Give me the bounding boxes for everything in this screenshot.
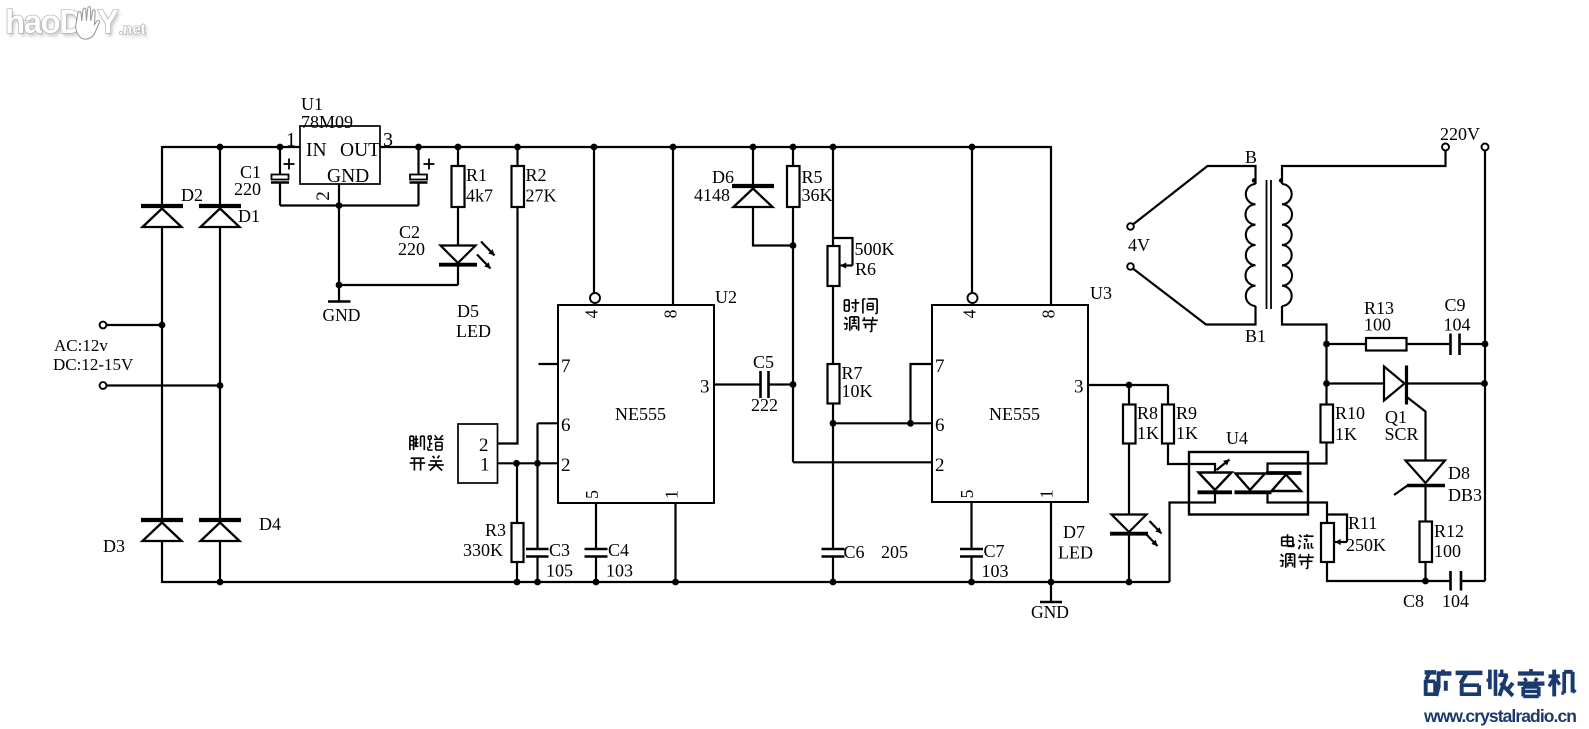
svg-text:220V: 220V [1440, 124, 1480, 144]
svg-text:U3: U3 [1090, 283, 1112, 303]
wire R12 bottom [1424, 562, 1426, 581]
label C4 value 103 [606, 561, 633, 581]
label AC:12v [54, 336, 108, 355]
label SCR [1385, 424, 1419, 444]
IC U3 NE555 box [932, 305, 1088, 502]
svg-text:330K: 330K [463, 540, 503, 560]
svg-text:R8: R8 [1137, 403, 1158, 423]
terminal 220V left [1442, 144, 1449, 151]
label U3 pin 4 [960, 309, 980, 318]
svg-text:R1: R1 [466, 165, 487, 185]
svg-text:C7: C7 [984, 541, 1005, 561]
node bottom rail / D7 [1126, 579, 1133, 586]
label R2 [526, 165, 547, 185]
svg-text:105: 105 [546, 561, 573, 581]
label U3 pin 7 [935, 356, 945, 377]
terminal 4V lower [1127, 263, 1134, 270]
wire C1 bottom [279, 184, 281, 206]
label B1 [1245, 326, 1266, 346]
wire U3 pin6 [833, 422, 932, 424]
capacitor C6 [822, 549, 845, 557]
svg-text:8: 8 [661, 309, 681, 318]
svg-text:220: 220 [234, 179, 261, 199]
label U2 pin 4 [582, 309, 602, 318]
svg-text:1K: 1K [1335, 424, 1357, 444]
label D7 LED [1058, 543, 1093, 563]
LED D7 arrows [1146, 521, 1162, 546]
label C3 value 105 [546, 561, 573, 581]
label U3 pin 2 [935, 455, 945, 476]
label C3 [549, 540, 570, 560]
svg-text:DB3: DB3 [1448, 485, 1482, 505]
capacitor C2 [410, 175, 428, 183]
wire top supply rail left segment [162, 146, 300, 148]
label R6 value 500K [855, 239, 895, 259]
node AC1 / D2 column [159, 322, 166, 329]
capacitor C7 [960, 549, 983, 557]
label 4V [1128, 235, 1150, 255]
capacitor C4 [585, 549, 608, 557]
label R10 value 1K [1335, 424, 1357, 444]
wire R13 left [1327, 343, 1367, 345]
label C9 value 104 [1444, 315, 1471, 335]
label U1 pin 3 [383, 129, 393, 151]
node bottom rail / C3 [534, 579, 541, 586]
svg-text:D8: D8 [1448, 463, 1470, 483]
svg-text:2: 2 [313, 191, 334, 201]
label U3 pin 5 [957, 489, 977, 498]
svg-text:R7: R7 [842, 363, 863, 383]
wire C6 bottom [832, 557, 834, 583]
wire U3 pin1 stem [1050, 502, 1052, 602]
svg-text:.net: .net [119, 21, 146, 38]
wire D8 to R12 [1424, 487, 1426, 522]
node bottom rail / U3 pin1 [1048, 579, 1055, 586]
node bottom rail / C6 [830, 579, 837, 586]
svg-text:7: 7 [935, 356, 945, 377]
regulator U1 78M09 box [300, 126, 380, 184]
wire U2 pin4 [593, 147, 595, 293]
wire R9 to U4 [1168, 444, 1189, 465]
capacitor C9 [1451, 334, 1460, 356]
label C2 value 220 [398, 239, 425, 259]
svg-text:C4: C4 [608, 540, 629, 560]
svg-text:4k7: 4k7 [466, 186, 493, 206]
node pin3 / R8 [1126, 382, 1133, 389]
label C4 [608, 540, 629, 560]
label D6 value 4148 [694, 185, 730, 205]
resistor R1 [452, 166, 465, 207]
IC U2 NE555 box [558, 305, 714, 503]
wire R1 top [457, 147, 459, 166]
wire SCR cathode [1407, 382, 1485, 384]
label U1 pin 2 [313, 191, 334, 201]
svg-text:D5: D5 [457, 301, 479, 321]
wire C4 bottom [595, 557, 597, 583]
wire left bridge column lower [161, 541, 163, 583]
resistor R10 [1321, 405, 1334, 443]
switch box foot switch [458, 424, 498, 483]
wire U4 to R11 [1308, 503, 1327, 524]
svg-text:D7: D7 [1063, 522, 1085, 542]
label U3 pin 3 [1074, 377, 1084, 398]
transformer phase dot right [1279, 178, 1283, 182]
label U1 [301, 94, 323, 114]
resistor R3 [512, 523, 524, 562]
label R7 [842, 363, 863, 383]
wire to U3 pin2 [793, 461, 932, 463]
label R3 value 330K [463, 540, 503, 560]
svg-text:C5: C5 [753, 352, 774, 372]
wire left bridge column middle [161, 227, 163, 520]
wire U2 pin3 out [714, 383, 760, 385]
label C5 [753, 352, 774, 372]
svg-text:B: B [1245, 147, 1257, 167]
svg-text:220: 220 [398, 239, 425, 259]
label R7 value 10K [842, 381, 873, 401]
svg-text:DC:12-15V: DC:12-15V [53, 355, 134, 374]
label R13 value 100 [1364, 315, 1391, 335]
svg-text:R6: R6 [855, 259, 876, 279]
label C8 value 104 [1442, 591, 1469, 611]
U4 triac top pin wire [1268, 464, 1309, 472]
wire bottom ground rail [162, 581, 1170, 583]
label D5 [457, 301, 479, 321]
U4 LED out wire [1189, 494, 1215, 503]
wire R8 to D7 [1128, 444, 1130, 516]
diode D6 [732, 186, 774, 207]
label D7 [1063, 522, 1085, 542]
svg-text:OUT: OUT [340, 140, 380, 161]
svg-text:D4: D4 [259, 514, 281, 534]
svg-text:205: 205 [881, 542, 908, 562]
svg-text:GND: GND [323, 305, 361, 325]
label R2 value 27K [526, 186, 557, 206]
label R9 value 1K [1176, 423, 1198, 443]
diode D3 [141, 520, 183, 541]
svg-text:100: 100 [1434, 541, 1461, 561]
potentiometer R6 wiper [833, 238, 853, 269]
LED D7 [1110, 515, 1148, 534]
label R1 value 4k7 [466, 186, 493, 206]
svg-text:C8: C8 [1403, 591, 1424, 611]
node top rail / D1 column [217, 144, 224, 151]
svg-text:LED: LED [1058, 543, 1093, 563]
svg-text:B1: B1 [1245, 326, 1266, 346]
svg-text:2: 2 [935, 455, 945, 476]
U4 triac left triangle [1235, 474, 1272, 493]
svg-text:C9: C9 [1445, 295, 1466, 315]
node top rail / U3 pin4 [969, 144, 976, 151]
label R3 [485, 520, 506, 540]
wire D5 bottom [457, 265, 459, 285]
wire U2 pin7 stub [539, 363, 559, 365]
wire U2 pin6 [538, 422, 559, 424]
svg-text:2: 2 [561, 455, 571, 476]
node bottom rail / R3 [514, 579, 521, 586]
label U2 pin 2 [561, 455, 571, 476]
svg-text:R5: R5 [802, 167, 823, 187]
wire C5 to node [769, 383, 793, 385]
svg-text:103: 103 [606, 561, 633, 581]
svg-text:1: 1 [1037, 490, 1057, 499]
node bottom wire / R12 [1422, 578, 1429, 585]
resistor R9 [1162, 405, 1174, 444]
node top rail / R6 [830, 144, 837, 151]
wire R9 top [1167, 385, 1169, 405]
svg-text:C6: C6 [844, 542, 865, 562]
node U1 pin1 / C1 [277, 144, 284, 151]
label Q1 [1385, 407, 1407, 427]
svg-text:5: 5 [582, 490, 602, 499]
label U2 pin 3 [700, 377, 710, 398]
wire primary bottom lead [1133, 269, 1255, 325]
label U4 [1226, 428, 1248, 448]
transformer phase dot left [1252, 178, 1256, 182]
svg-text:R11: R11 [1348, 513, 1377, 533]
wire U4 to bottom rail [1170, 503, 1190, 583]
label NE555 (U3) [989, 404, 1040, 424]
transistor Q1 SCR [1384, 366, 1407, 405]
capacitor C8 [1451, 571, 1462, 591]
IC U4 opto-triac box [1189, 452, 1308, 515]
svg-text:NE555: NE555 [615, 404, 666, 424]
terminal 4V upper [1127, 223, 1134, 230]
wire C6 column [832, 423, 834, 549]
U4 internal LED [1198, 473, 1233, 493]
node AC2 / D1 column [217, 382, 224, 389]
node top rail / D6 [750, 144, 757, 151]
diode D1 [199, 206, 241, 227]
label U2 pin 1 [662, 490, 682, 499]
svg-text:1K: 1K [1176, 423, 1198, 443]
potentiometer R11 wiper [1327, 515, 1347, 546]
wire C3 bottom [536, 557, 538, 583]
label D5 LED [456, 321, 491, 341]
resistor R13 [1366, 338, 1407, 351]
label U1 OUT [340, 140, 380, 161]
label R12 [1434, 521, 1464, 541]
label C7 value 103 [982, 561, 1009, 581]
wire right rail [1484, 151, 1486, 582]
wire U2 pin8 [672, 147, 674, 305]
node top rail / R2 [514, 144, 521, 151]
wire R13 to C9 [1407, 343, 1451, 345]
label DB3 [1448, 485, 1482, 505]
label R12 value 100 [1434, 541, 1461, 561]
label R6 [855, 259, 876, 279]
svg-text:3: 3 [700, 377, 710, 398]
svg-text:D6: D6 [712, 167, 734, 187]
wire R6 to R7 [832, 286, 834, 364]
label C1 [240, 162, 261, 182]
wire U2 pin5 stem [595, 503, 597, 549]
label C6 [844, 542, 865, 562]
svg-text:GND: GND [327, 166, 369, 187]
label U3 pin 8 [1039, 309, 1059, 318]
diode D2 [141, 206, 183, 227]
wire R8 top [1128, 385, 1130, 405]
wire U3 pin3 out [1088, 384, 1168, 386]
label R9 [1176, 403, 1197, 423]
wire AC input 2 [107, 384, 221, 386]
U3 pin4 circle [968, 293, 978, 303]
label NE555 (U2) [615, 404, 666, 424]
label C2 [399, 222, 420, 242]
transformer B primary coil [1246, 184, 1256, 306]
node pin2 wire / R3 [513, 460, 520, 467]
node bottom rail / U2 pin1 [672, 579, 679, 586]
label D1 [238, 206, 260, 226]
wire right bridge column lower [219, 541, 221, 582]
svg-text:250K: 250K [1346, 535, 1386, 555]
capacitor C1 [271, 175, 289, 183]
node R5 / D6 [790, 242, 797, 249]
wire D6 bottom [753, 207, 793, 246]
label U2 [715, 287, 737, 307]
node bottom rail / D4 column [217, 579, 224, 586]
wire AC input 1 [107, 324, 163, 326]
wire D6 top [752, 147, 754, 186]
wire left bridge column upper [161, 146, 163, 206]
label shijian (time) [844, 299, 877, 314]
svg-text:NE555: NE555 [989, 404, 1040, 424]
transformer core [1267, 180, 1272, 309]
svg-text:Y: Y [97, 3, 119, 40]
wire R10 to U4 [1308, 443, 1327, 464]
svg-text:4: 4 [960, 309, 980, 318]
node pin2 wire / pin6 link [534, 460, 541, 467]
svg-text:3: 3 [383, 129, 393, 151]
U4 LED arrow [1217, 460, 1230, 471]
svg-text:104: 104 [1442, 591, 1469, 611]
wire top supply rail right segment [380, 146, 1051, 148]
wire R11 to bottom [1327, 562, 1450, 581]
node pin6 wire / pin7 link [907, 420, 914, 427]
wire pin6 link column [536, 423, 538, 549]
wire U3 pin5 stem [970, 502, 972, 549]
label B [1245, 147, 1257, 167]
svg-text:GND: GND [1031, 602, 1069, 622]
svg-text:500K: 500K [855, 239, 895, 259]
svg-text:1: 1 [662, 490, 682, 499]
svg-text:U1: U1 [301, 94, 323, 114]
wire U3 pin7 link [911, 364, 933, 423]
label U1 pin 1 [286, 129, 296, 151]
label U3 pin 1 [1037, 490, 1057, 499]
wire U3 pin4 [971, 147, 973, 293]
label D2 [181, 185, 203, 205]
svg-text:www.crystalradio.cn: www.crystalradio.cn [1423, 706, 1577, 726]
wire U2 pin1 stem [674, 503, 676, 582]
label C6 value 205 [881, 542, 908, 562]
label R11 [1348, 513, 1377, 533]
svg-text:D2: D2 [181, 185, 203, 205]
label C2 plus [424, 159, 435, 170]
label D4 [259, 514, 281, 534]
resistor R7 [828, 364, 840, 404]
wire ground bus drop [338, 206, 340, 286]
label tiaojie (adjust) [844, 317, 878, 332]
node bottom rail / C7 [968, 579, 975, 586]
node U1 pin3 / C2 [415, 144, 422, 151]
node SCR anode / R10 [1323, 380, 1330, 387]
wire secondary bottom lead [1282, 306, 1327, 344]
resistor R2 [512, 166, 525, 207]
node right rail / SCR [1481, 380, 1488, 387]
node top rail / U2 pin8 [670, 144, 677, 151]
wire D5 cathode return [339, 284, 458, 286]
label U2 pin 6 [561, 415, 571, 436]
resistor R5 [787, 166, 800, 207]
diode D8 DB3 [1394, 461, 1445, 496]
wire U3 pin8 [1050, 146, 1052, 305]
svg-text:7: 7 [561, 356, 571, 377]
node bottom rail / C4 [593, 579, 600, 586]
wire R1 to D5 [457, 207, 459, 246]
wire SCR gate [1408, 398, 1426, 461]
node B1 / R13 [1323, 341, 1330, 348]
capacitor C5 [761, 371, 769, 398]
node top rail / R5 [790, 144, 797, 151]
U2 pin4 circle [590, 293, 600, 303]
label U3 [1090, 283, 1112, 303]
wire R5 top [792, 147, 794, 166]
label 78M09 [301, 112, 353, 132]
transformer B secondary coil [1282, 184, 1292, 306]
wire R2 top [516, 147, 518, 166]
label C7 [984, 541, 1005, 561]
wire R5 column [792, 207, 794, 462]
svg-text:D1: D1 [238, 206, 260, 226]
svg-text:1K: 1K [1137, 423, 1159, 443]
wire R7 bottom [832, 404, 834, 424]
svg-text:78M09: 78M09 [301, 112, 353, 132]
terminal AC input 2 [100, 382, 107, 389]
node R7 / U3 pin6 [830, 420, 837, 427]
svg-text:2: 2 [479, 435, 489, 456]
label R8 value 1K [1137, 423, 1159, 443]
logo haoDIY.net [5, 3, 148, 43]
svg-text:100: 100 [1364, 315, 1391, 335]
wire R2 to switch pin2 [498, 207, 518, 444]
wire R3 bottom [516, 562, 518, 582]
label D8 [1448, 463, 1470, 483]
svg-text:36K: 36K [802, 185, 833, 205]
label jiaota (foot) [410, 435, 444, 450]
wire primary top lead [1133, 166, 1255, 224]
terminal 220V right [1482, 144, 1489, 151]
label R5 [802, 167, 823, 187]
node C5 / R5 column [790, 381, 797, 388]
node ground junction [336, 282, 343, 289]
svg-text:haoD: haoD [5, 3, 82, 40]
svg-text:104: 104 [1444, 315, 1471, 335]
label tiaojie2 (adjust) [1280, 554, 1314, 569]
svg-text:4: 4 [582, 309, 602, 318]
wire C9 to right rail [1460, 343, 1485, 345]
label R1 [466, 165, 487, 185]
wire U1 pin2 stem [338, 184, 340, 206]
svg-text:4V: 4V [1128, 235, 1150, 255]
label kaiguan (switch) [410, 456, 444, 471]
node right rail / C9 [1482, 341, 1489, 348]
svg-text:4148: 4148 [694, 185, 730, 205]
svg-text:6: 6 [935, 415, 945, 436]
U4 LED input wire [1189, 464, 1215, 473]
svg-text:SCR: SCR [1385, 424, 1419, 444]
label R11 value 250K [1346, 535, 1386, 555]
